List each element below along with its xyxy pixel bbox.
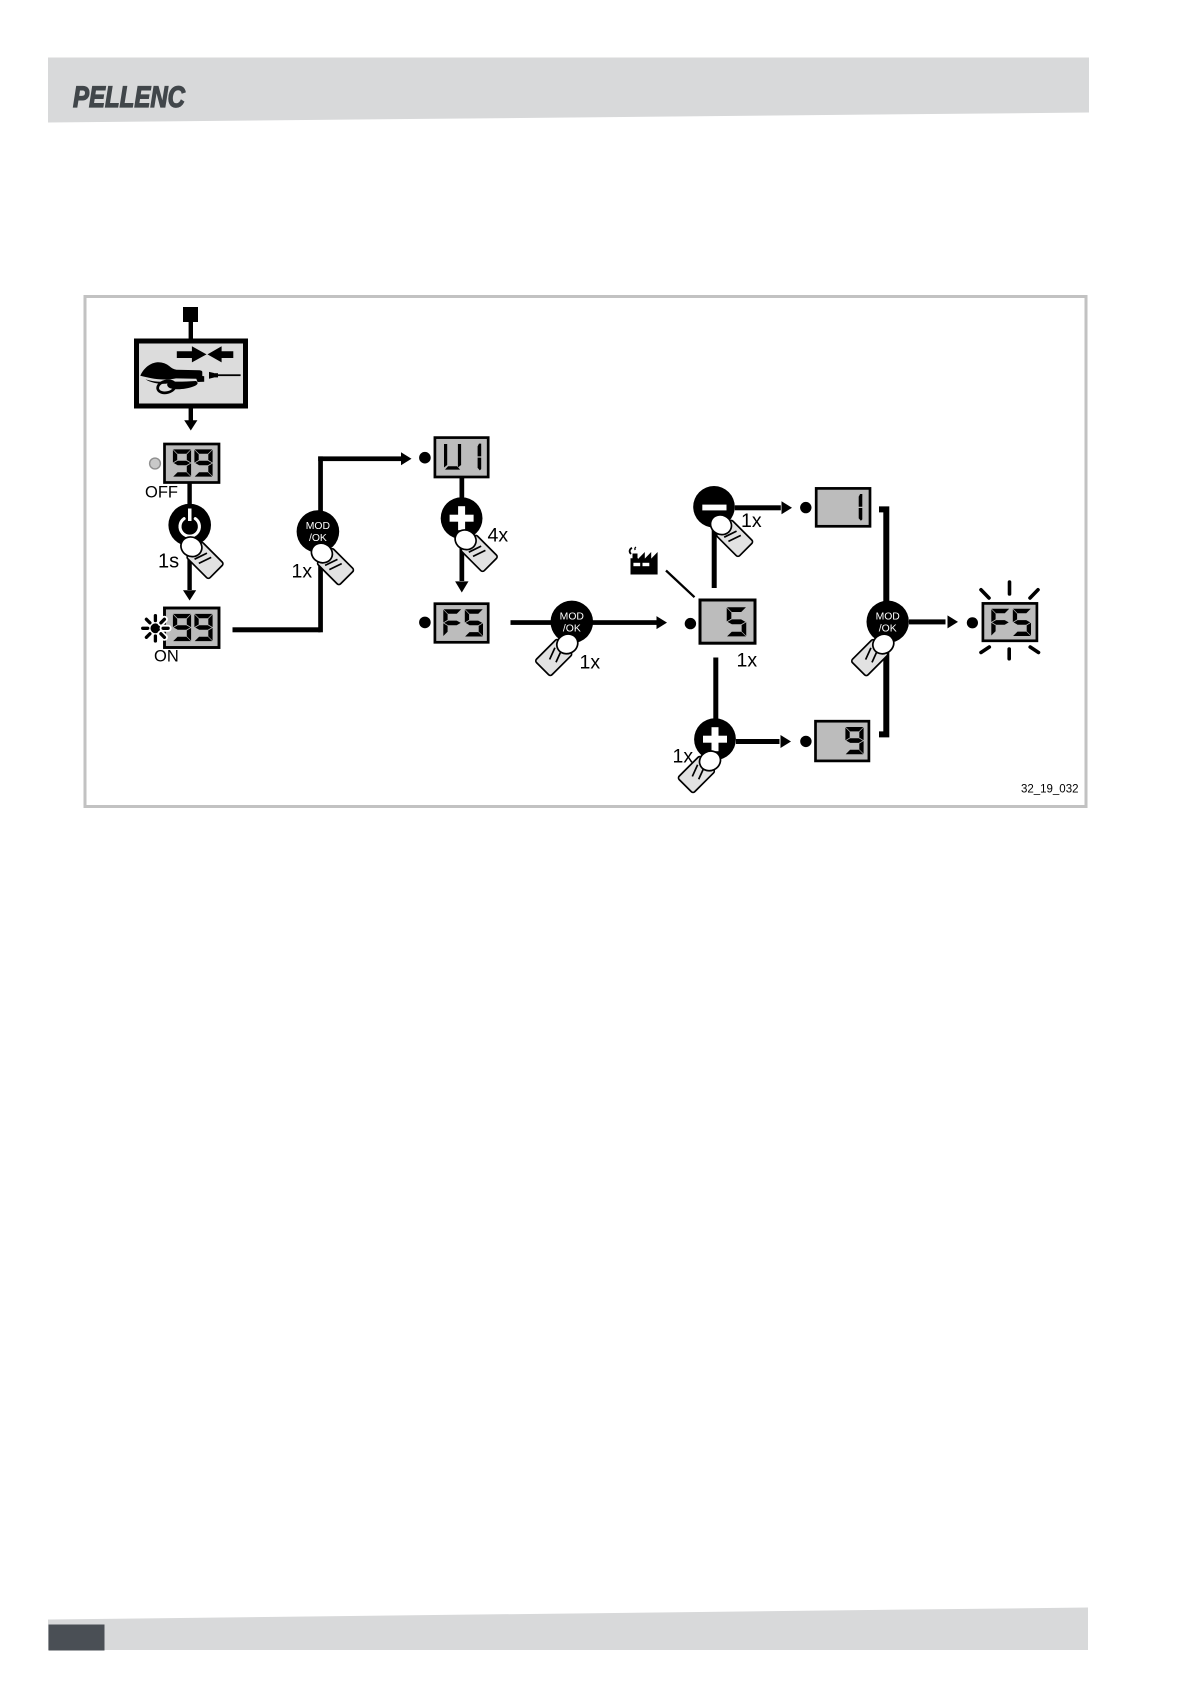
bullet 1 [800,502,811,513]
svg-text:4x: 4x [488,525,509,547]
MOD/OK button 2 [551,601,594,644]
hand on plus bottom [676,743,728,795]
svg-text:32_19_032: 32_19_032 [1021,784,1079,796]
svg-text:1x: 1x [673,746,694,768]
svg-text:ON: ON [154,648,179,666]
bullet F5 [419,617,431,629]
star rays over display [161,619,168,637]
diagram frame [85,297,1086,807]
wire F5 to 5 with arrowhead [511,620,657,625]
wire square to tool box [189,322,193,340]
svg-text:/OK: /OK [879,623,897,634]
hand on MOD/OK 3 [850,626,902,678]
power button [168,504,211,547]
factory pointer line [666,571,695,598]
svg-text:MOD: MOD [306,521,330,532]
svg-text:OFF: OFF [145,484,178,502]
arrow left (facing) [208,346,234,362]
connector square [183,307,198,322]
arrow right (facing) [177,346,207,362]
wire ON right [233,627,321,632]
wire U1 to plus button [460,477,465,499]
MOD/OK button 1 [297,510,340,553]
blinking F5 display [983,603,1037,640]
bullet blinking F5 [967,617,978,628]
plus button bottom [694,718,736,760]
arrow tool box to OFF display [189,406,193,421]
wire 5 down to plus button [713,658,718,719]
plus button 4x [441,497,483,539]
arrow plus to F5 [460,538,465,581]
wire 5 up to minus button [712,528,717,588]
svg-text:PELLENC: PELLENC [73,81,186,114]
bullet 5 [685,618,696,629]
arrow plus to 9 [736,739,780,744]
MOD/OK button 3 [867,601,909,643]
hand on plus button [448,522,500,574]
handle strip [167,381,197,389]
svg-text:/OK: /OK [309,533,327,544]
display 99 ON [165,608,220,648]
tool icon box [137,341,246,406]
footer page number box [49,1625,105,1651]
blinking star ON [143,616,161,641]
hand on minus button [703,507,755,559]
svg-text:MOD: MOD [560,611,584,622]
hand on MOD/OK 1 [304,535,356,587]
footer gray band [48,1608,1088,1651]
header gray band [48,58,1089,123]
bracket joining 1 and 9 [879,509,886,734]
bullet U1 [419,452,431,464]
wire OFF to power button [187,483,191,506]
display 5 [700,600,755,643]
off indicator dot [150,458,161,469]
wire to U1 + arrowhead [318,456,401,461]
svg-text:MOD: MOD [876,611,900,622]
svg-text:1s: 1s [158,551,179,573]
arrow MOD3 to blinking F5 [909,619,946,624]
svg-text:/OK: /OK [563,623,581,634]
pruning shear silhouette [140,362,204,382]
svg-text:1x: 1x [292,561,313,583]
display 9 [816,721,869,761]
trigger loop [156,379,176,395]
cone nozzle [209,372,214,379]
minus button [693,486,735,528]
lower jaw [146,379,173,384]
wire vertical up [318,456,323,632]
blink rays [981,582,1039,659]
factory icon [630,547,658,575]
display U1 [435,438,488,477]
svg-text:1x: 1x [580,652,601,674]
bullet 9 [800,736,811,747]
hand on power button [173,529,225,581]
hand on MOD/OK 2 [534,626,586,678]
svg-text:1x: 1x [737,650,758,672]
arrow minus to 1 [735,505,781,510]
arrow power to ON display [187,546,191,590]
display 1 [816,488,870,526]
svg-text:1x: 1x [741,510,762,532]
display 99 OFF [165,444,220,483]
display F5 [435,604,488,643]
